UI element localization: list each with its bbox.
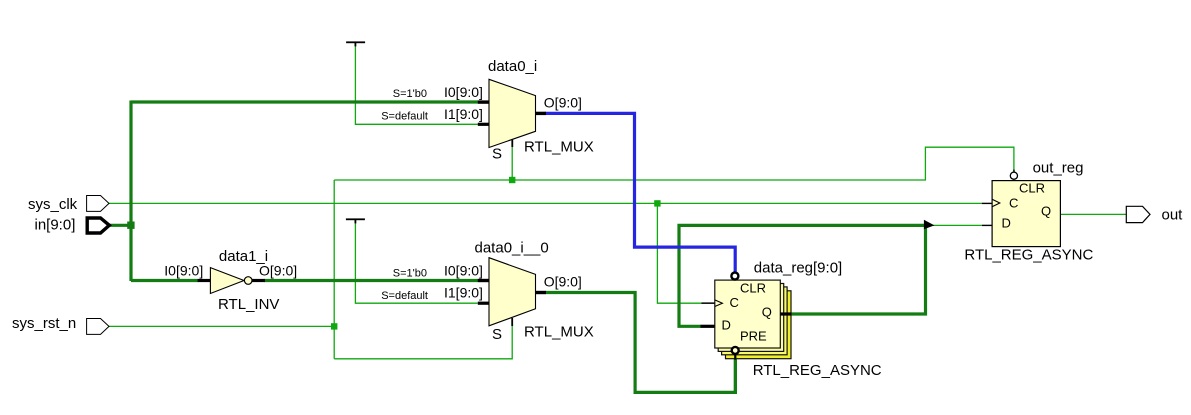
pin stub inverter output — [252, 279, 265, 282]
pin stub data_reg Q over stack — [780, 312, 791, 315]
pin stub out_reg CLR stem — [1013, 170, 1015, 173]
svg-text:I1[9:0]: I1[9:0] — [444, 106, 483, 122]
pin stub data_reg PRE — [734, 354, 736, 360]
svg-text:S=1'b0: S=1'b0 — [393, 88, 427, 100]
wire thin segment into out_reg D — [933, 224, 982, 226]
register data_reg clock triangle — [715, 300, 723, 307]
svg-text:in[9:0]: in[9:0] — [35, 217, 76, 234]
node junction on sys_rst_n net — [331, 323, 337, 329]
register out_reg body — [992, 181, 1060, 247]
arrowhead into out_reg D — [924, 220, 935, 230]
register data_reg stacked layer 4 — [726, 291, 792, 359]
svg-text:data0_i: data0_i — [488, 58, 537, 75]
node junction sys_clk tap — [654, 200, 660, 206]
svg-text:out_reg: out_reg — [1033, 160, 1084, 177]
wire bus from in port to junction — [110, 224, 132, 227]
svg-text:I1[9:0]: I1[9:0] — [444, 285, 483, 301]
pin stub inverter input — [198, 279, 211, 282]
svg-text:RTL_MUX: RTL_MUX — [524, 324, 594, 341]
svg-text:S=1'b0: S=1'b0 — [393, 267, 427, 279]
svg-text:S: S — [492, 146, 502, 163]
wire bus in net to inverter input — [131, 279, 198, 282]
pin stub mux1 I1 — [478, 123, 490, 126]
register out_reg clock triangle — [992, 199, 1000, 207]
svg-text:I0[9:0]: I0[9:0] — [164, 262, 203, 278]
pin stub mux2 I1 — [478, 302, 490, 305]
register data_reg PRE bubble — [732, 347, 739, 354]
wire constant tie 2 to mux2 I1 — [355, 221, 477, 304]
svg-text:Q: Q — [1041, 204, 1051, 219]
pin stub data_reg D — [701, 325, 715, 328]
pin stub mux1 S — [511, 139, 513, 147]
svg-text:PRE: PRE — [740, 328, 767, 343]
wire sys_rst_n lower run to mux2 S — [334, 326, 512, 359]
pin stub mux1 I0 — [478, 100, 490, 103]
svg-text:Q: Q — [762, 305, 772, 320]
ground tie constant for mux2 I1 — [346, 218, 365, 223]
pin stub mux2 I0 — [478, 279, 490, 282]
ground tie constant for mux1 I1 — [346, 41, 365, 46]
wire bus data_reg PRE vertical over stack — [734, 359, 737, 393]
svg-text:S: S — [492, 326, 502, 343]
wire bus vertical on in net — [129, 101, 132, 282]
svg-text:data1_i: data1_i — [219, 248, 268, 265]
svg-text:data0_i__0: data0_i__0 — [475, 240, 549, 257]
pin stub out_reg C — [982, 203, 992, 204]
wire sys_rst_n vertical riser — [333, 180, 335, 359]
wire bus data_reg Q feedback — [679, 225, 926, 326]
mux data0_i__0 body — [489, 258, 536, 326]
svg-text:data_reg[9:0]: data_reg[9:0] — [754, 260, 842, 277]
inverter data1_i bubble — [244, 277, 252, 285]
wire bus mux2 O to data_reg PRE — [546, 293, 736, 393]
node junction mux1 S on rst net — [509, 177, 515, 183]
port in[9:0] — [87, 218, 109, 233]
wire bus in net to mux1 I0 — [131, 100, 478, 103]
svg-text:D: D — [722, 318, 731, 333]
svg-text:sys_rst_n: sys_rst_n — [12, 315, 76, 332]
mux data0_i body — [489, 79, 536, 147]
register out_reg CLR bubble — [1010, 172, 1017, 179]
wire sys_clk drop to data_reg C — [657, 203, 702, 303]
register data_reg stacked layer 3 — [722, 287, 788, 355]
svg-text:CLR: CLR — [1019, 181, 1045, 196]
svg-text:sys_clk: sys_clk — [28, 196, 78, 213]
register data_reg stacked layer 2 — [718, 284, 784, 352]
wire sys_rst_n upper run to out_reg CLR — [334, 147, 1014, 180]
svg-text:out: out — [1162, 207, 1184, 224]
pin stub mux2 S — [511, 318, 513, 326]
wire out_reg Q to out port — [1060, 213, 1126, 215]
wire constant tie 1 to mux1 I1 — [355, 44, 477, 124]
pin stub out_reg D — [982, 225, 992, 226]
wire blue bus mux1 O to data_reg CLR — [545, 113, 735, 271]
svg-text:S=default: S=default — [381, 110, 428, 122]
svg-text:C: C — [1009, 195, 1018, 210]
port sys_clk — [87, 196, 109, 212]
pin stub data_reg C — [702, 302, 715, 304]
node junction on in net — [127, 222, 134, 229]
svg-text:C: C — [730, 295, 739, 310]
svg-text:I0[9:0]: I0[9:0] — [444, 263, 483, 279]
port out — [1126, 206, 1150, 222]
pin stub mux2 O — [536, 291, 547, 294]
svg-text:RTL_REG_ASYNC: RTL_REG_ASYNC — [964, 247, 1093, 264]
svg-text:O[9:0]: O[9:0] — [544, 273, 582, 289]
inverter data1_i body — [210, 268, 244, 294]
wire sys_rst_n horizontal from port — [109, 325, 334, 327]
wire mux1 S to rst net — [511, 146, 513, 180]
register data_reg CLR bubble — [731, 273, 738, 280]
svg-text:O[9:0]: O[9:0] — [544, 94, 582, 110]
port sys_rst_n — [87, 319, 109, 335]
pin stub data_reg Q — [780, 312, 791, 315]
svg-text:S=default: S=default — [381, 290, 428, 302]
svg-text:I0[9:0]: I0[9:0] — [444, 84, 483, 100]
pin stub mux1 O — [536, 112, 547, 115]
svg-text:D: D — [1002, 216, 1011, 231]
svg-text:CLR: CLR — [740, 281, 766, 296]
wire sys_clk horizontal net — [109, 202, 982, 204]
svg-text:RTL_MUX: RTL_MUX — [524, 139, 594, 156]
svg-text:RTL_REG_ASYNC: RTL_REG_ASYNC — [753, 362, 882, 379]
wire bus inverter output to mux2 I0 — [265, 279, 479, 282]
svg-text:RTL_INV: RTL_INV — [218, 296, 279, 313]
register data_reg body — [715, 280, 781, 348]
